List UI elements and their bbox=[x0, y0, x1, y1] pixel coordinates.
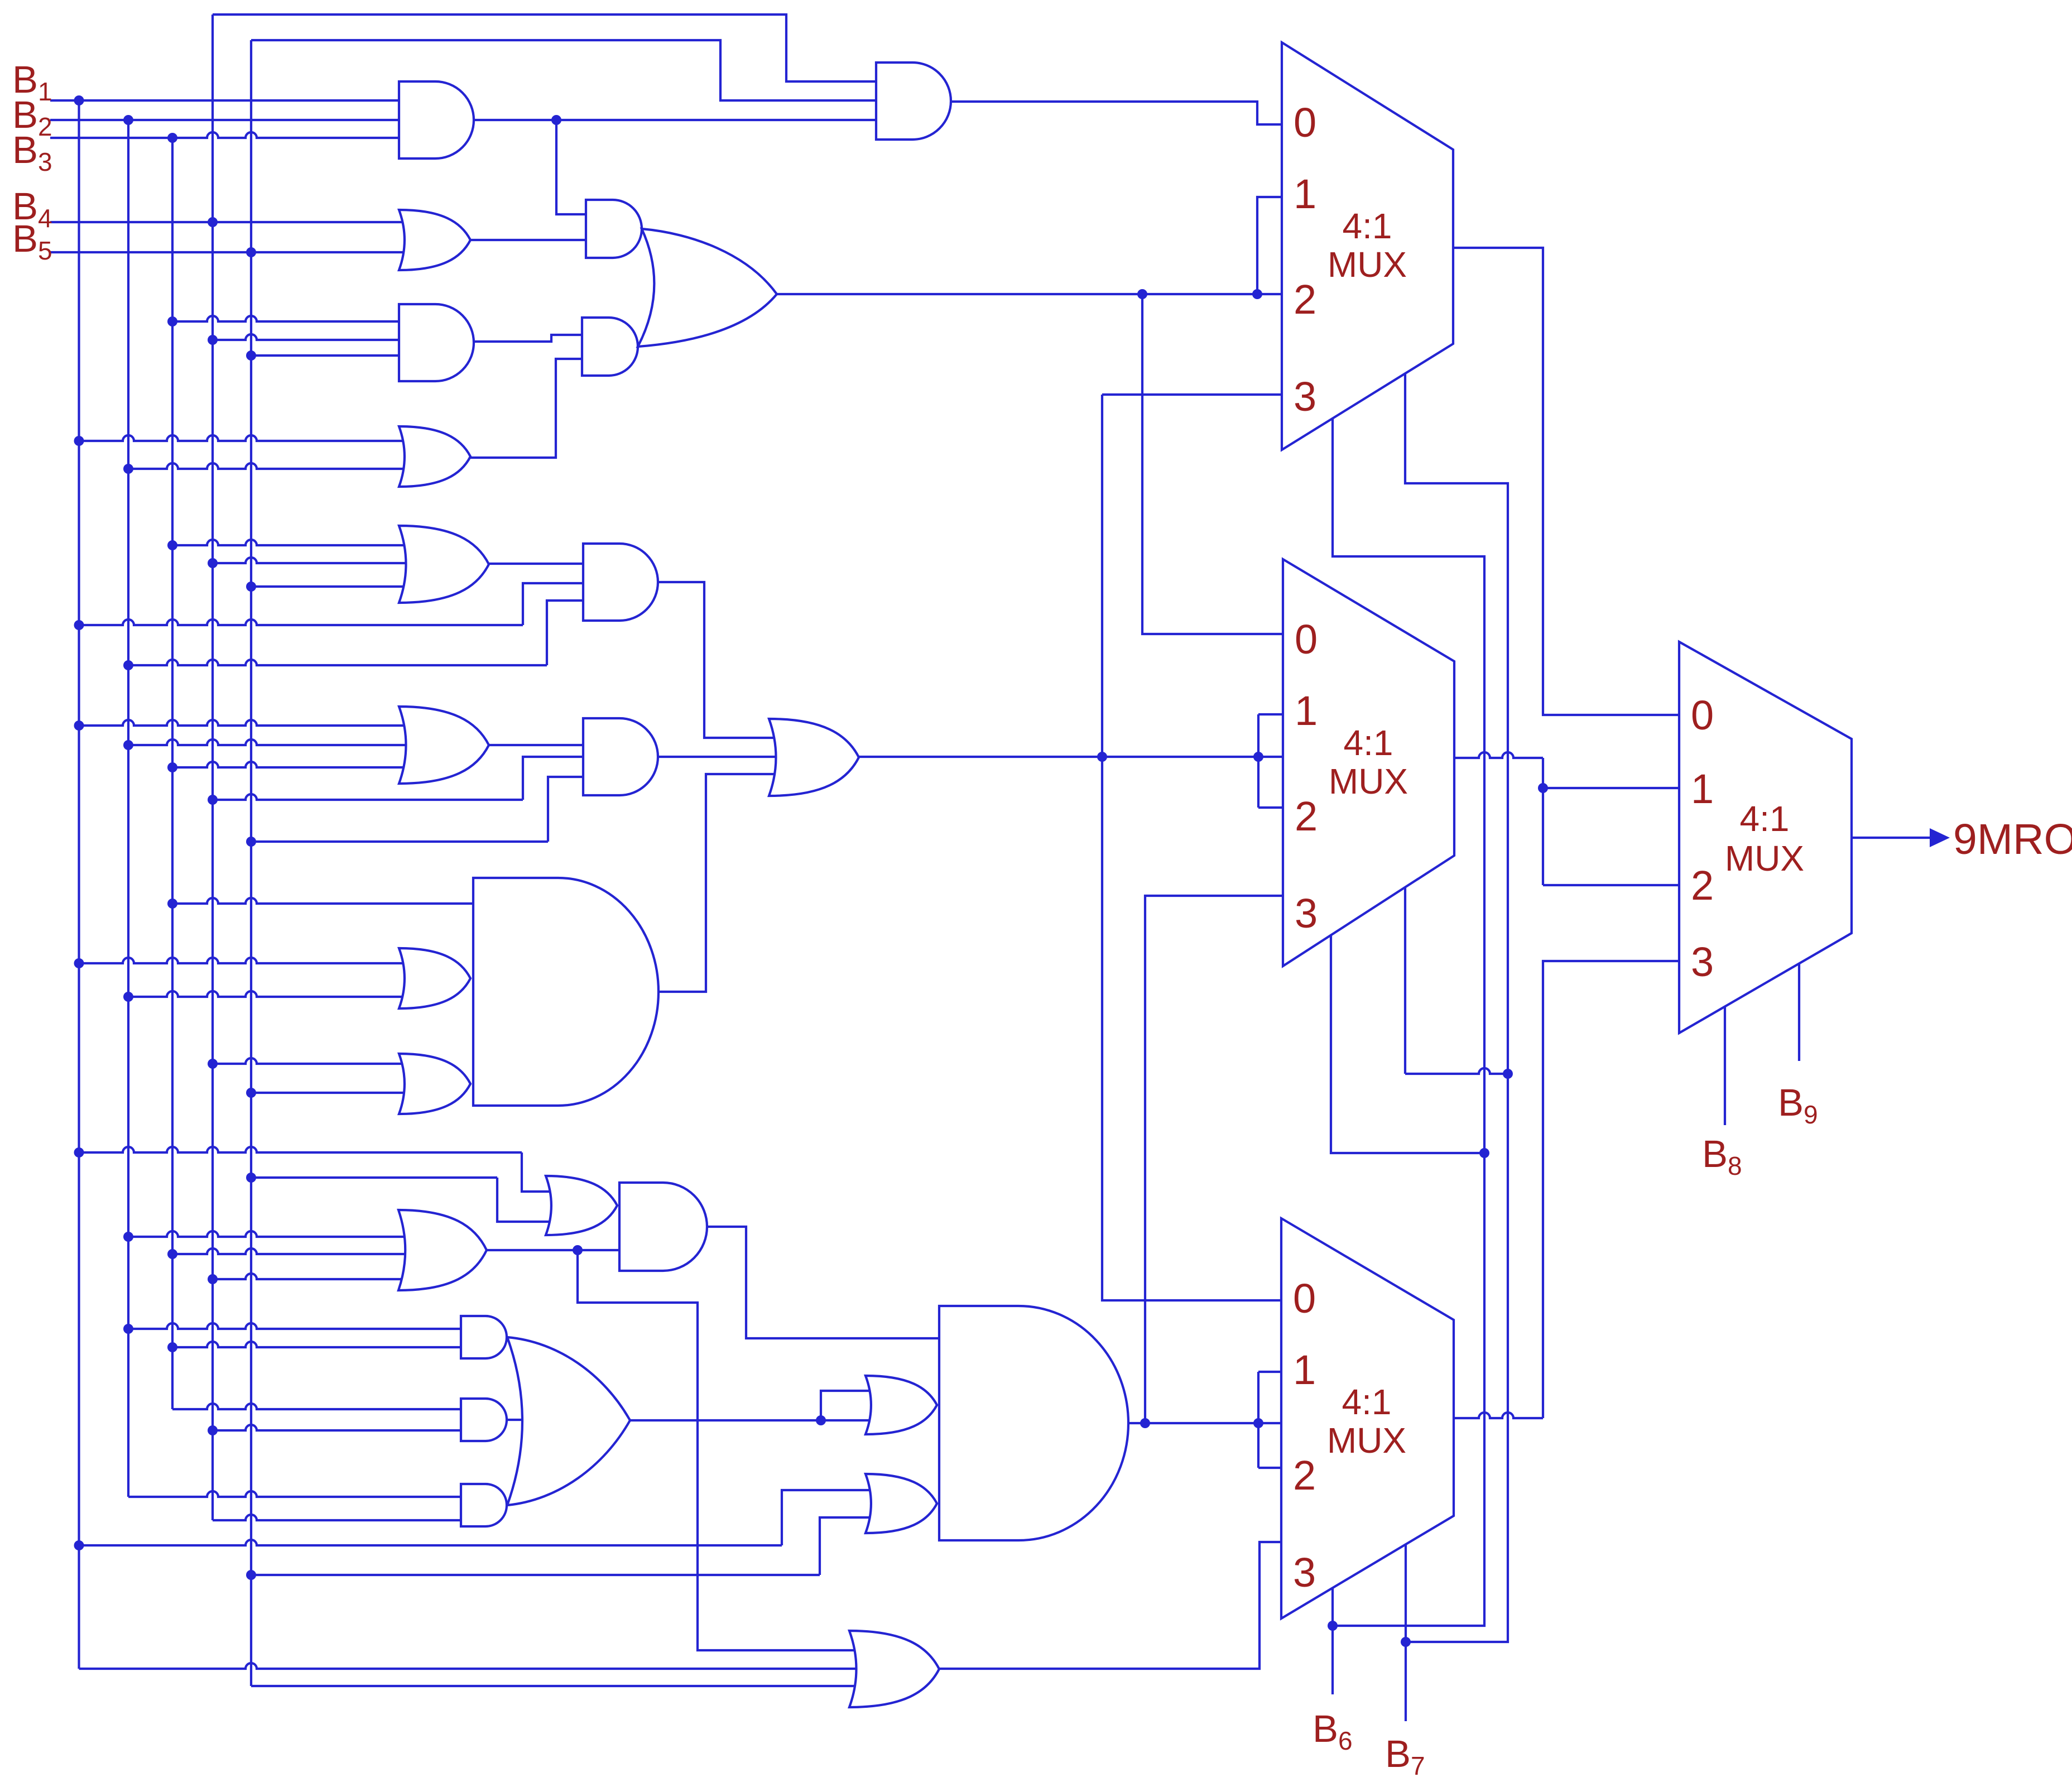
wire OR11 net up to MUX1 input 3 and down to MUX3 input 0 bbox=[1102, 393, 1295, 396]
and-gate A17c mini bbox=[461, 1484, 507, 1526]
wire B4 row to AND2 bbox=[213, 334, 410, 340]
wire B2 row to AND8 bbox=[128, 660, 547, 665]
svg-text:1: 1 bbox=[1295, 688, 1318, 734]
wire bus B2 vertical bbox=[127, 120, 129, 1497]
or-gate O13a (B1 B2) bbox=[399, 948, 470, 1008]
svg-text:1: 1 bbox=[1294, 171, 1316, 217]
junction B5 row OR13b bbox=[246, 1088, 256, 1098]
wire B5 row to AND2 bbox=[251, 354, 410, 357]
wire B5 row to OR7 bbox=[251, 585, 410, 588]
junction B3 row OR16 bbox=[167, 1249, 177, 1259]
svg-text:3: 3 bbox=[1293, 1549, 1316, 1596]
wire OR16 output to AND14 input 2 bbox=[487, 1249, 631, 1251]
wire bus B1 vertical bbox=[78, 100, 80, 1669]
wire AND14 output to AND19 input 1 bbox=[706, 1227, 951, 1338]
junction B1 row AND8 bbox=[74, 620, 84, 630]
wire MUX2 input bracket 1-2 bbox=[1257, 714, 1259, 808]
or-gate O17a bbox=[866, 1376, 937, 1434]
junction B2 row AND17a bbox=[123, 1324, 133, 1334]
junction B5 input tap bbox=[246, 247, 256, 257]
junction B1 row OR2 bbox=[74, 436, 84, 446]
junction B3 row AND17a bbox=[167, 1342, 177, 1352]
wire B2 row to OR13a bbox=[128, 991, 410, 997]
wire input stub B5 to OR1 bbox=[50, 251, 410, 253]
and-gate A8 bbox=[583, 544, 658, 621]
or-gate O15 bbox=[546, 1176, 617, 1235]
junction MUX1 bracket bbox=[1252, 289, 1262, 299]
wire B2 row to AND17a bbox=[128, 1323, 472, 1329]
junction OR5 net to MUX2 branch bbox=[1137, 289, 1147, 299]
wire B5 jog up to OR17b input 2 bbox=[820, 1517, 884, 1575]
svg-text:4:1: 4:1 bbox=[1344, 723, 1393, 763]
junction B2 row OR2 bbox=[123, 464, 133, 474]
output arrowhead bbox=[1930, 828, 1950, 847]
or-gate O11 bbox=[769, 719, 859, 796]
wire B3 row to AND17a bbox=[172, 1342, 472, 1347]
wire AND17b output stub bbox=[507, 1419, 532, 1421]
or-gate O2 (B1 B2) bbox=[399, 426, 470, 487]
junction B3 row AND12 bbox=[167, 899, 177, 909]
junction B4 row AND2 bbox=[208, 335, 218, 345]
junction AND1 output branch bbox=[551, 115, 561, 125]
wire OR9 output to AND10 input 1 bbox=[489, 744, 594, 746]
svg-text:4:1: 4:1 bbox=[1343, 206, 1392, 246]
junction B4 row AND17b bbox=[208, 1425, 218, 1435]
wire bus B3 vertical bbox=[171, 138, 174, 1409]
wire AND1 output to AND3 input 3 bbox=[472, 119, 893, 121]
svg-text:2: 2 bbox=[1295, 793, 1318, 839]
wire input stub B3 to AND1 bbox=[50, 132, 410, 138]
wire B4 row to OR13b bbox=[213, 1058, 410, 1064]
svg-text:0: 0 bbox=[1691, 692, 1714, 738]
junction B1 row OR15 bbox=[74, 1147, 84, 1157]
and-gate A17b mini bbox=[461, 1399, 507, 1441]
wire MUX1 output to MUX4 input 0 bbox=[1453, 248, 1691, 715]
junction MUX4 bracket bbox=[1538, 783, 1548, 793]
wire B2 row to AND17c bbox=[128, 1491, 472, 1497]
wire B3 row to OR9 bbox=[172, 762, 410, 767]
wire B5 row to OR17b bbox=[251, 1574, 820, 1576]
svg-text:3: 3 bbox=[1691, 939, 1714, 985]
wire B1 row to OR9 bbox=[79, 720, 411, 726]
wire B2 jog up to AND8 input 3 bbox=[547, 601, 594, 665]
wire AND19 output to MUX3 bracket bbox=[1127, 1422, 1295, 1424]
junction OR18big net branch bbox=[816, 1415, 826, 1425]
junction B4 row OR13b bbox=[208, 1059, 218, 1069]
wire select B9 stub bbox=[1798, 964, 1800, 1061]
wire B4 row to AND10 bbox=[213, 794, 523, 800]
svg-text:0: 0 bbox=[1293, 1275, 1316, 1322]
wire select B6 chain from MUX1 bbox=[1333, 418, 1484, 1626]
wire MUX2 select B tap bbox=[1405, 1068, 1508, 1074]
wire select B8 stub bbox=[1724, 1007, 1726, 1125]
wire B4 row to AND17b bbox=[213, 1425, 472, 1430]
junction B2 input tap bbox=[123, 115, 133, 125]
junction select B6 node bbox=[1328, 1621, 1338, 1631]
wire OR7 output to AND8 input 1 bbox=[489, 563, 594, 565]
wire B3 row to AND2 bbox=[172, 316, 410, 321]
wire B5 row to OR15 bbox=[251, 1176, 497, 1179]
wire B4 top feed to AND3 input 1 bbox=[213, 15, 893, 81]
wire B1 row to OR15 bbox=[79, 1147, 522, 1152]
wire branch up to OR17a input 1 bbox=[821, 1391, 884, 1420]
wire MUX2 output to MUX4 inputs 1-2 bbox=[1454, 752, 1543, 758]
and-gate A14 bbox=[619, 1183, 707, 1271]
wire input stub B2 bbox=[50, 119, 410, 121]
svg-text:1: 1 bbox=[1293, 1347, 1316, 1393]
junction B5 row AND10 bbox=[246, 837, 256, 847]
junction B1 row OR9 bbox=[74, 721, 84, 731]
svg-text:3: 3 bbox=[1294, 373, 1316, 420]
wire B2 row to OR2 bbox=[128, 463, 410, 469]
junction B5 row AND2 bbox=[246, 350, 256, 361]
junction B2 row OR9 bbox=[123, 740, 133, 750]
wire B2 row to OR9 bbox=[128, 739, 410, 745]
wire AND19 net up to MUX2 input 3 bbox=[1145, 896, 1295, 1423]
junction OR16 net branch bbox=[573, 1245, 583, 1255]
junction OR11 net to MUX3 branch bbox=[1097, 752, 1107, 762]
and-gate A2 (B3 B4 B5) bbox=[399, 304, 474, 381]
wire B1 row to OR13a bbox=[79, 958, 411, 963]
wire B1 jog up to AND8 input 2 bbox=[523, 583, 594, 625]
or-gate O9 (B1 B2 B3) bbox=[399, 707, 489, 784]
and-gate A10 bbox=[583, 718, 658, 795]
junction B5 row OR15 bbox=[246, 1173, 256, 1183]
wire B1 jog down to OR15 input 1 bbox=[522, 1152, 558, 1192]
junction B2 row AND8 bbox=[123, 660, 133, 670]
junction MUX2 bracket bbox=[1253, 752, 1263, 762]
wire AND12 output to OR11 input 3 bbox=[657, 774, 780, 992]
wire select B6 to MUX3 and source stub bbox=[1331, 1588, 1334, 1694]
wire bus B4 vertical bbox=[211, 15, 214, 1520]
junction B3 row OR9 bbox=[167, 762, 177, 772]
junction B4 row OR16 bbox=[208, 1274, 218, 1284]
wire B3 row to AND12 input a bbox=[172, 898, 484, 904]
and-gate A12 big bbox=[473, 878, 658, 1106]
wire select B7 to MUX3 and source stub bbox=[1405, 1544, 1407, 1721]
wire OR5 net down to MUX2 input 0 bbox=[1142, 294, 1295, 634]
and-gate A6 bbox=[582, 318, 638, 376]
wire B5 row to OR13b bbox=[251, 1092, 410, 1094]
svg-text:MUX: MUX bbox=[1327, 1420, 1406, 1461]
svg-text:MUX: MUX bbox=[1328, 244, 1407, 285]
svg-text:1: 1 bbox=[1691, 766, 1714, 812]
junction B1 row OR17b bbox=[74, 1540, 84, 1550]
wire 9MRO output bbox=[1852, 837, 1930, 839]
wire MUX1 input bracket 1-2 bbox=[1257, 197, 1295, 294]
or-gate O5 big bbox=[638, 229, 777, 347]
junction B2 row OR16 bbox=[123, 1232, 133, 1242]
wire B2 row to OR16 bbox=[128, 1231, 410, 1237]
junction B4 input tap bbox=[208, 217, 218, 227]
junction B5 row OR7 bbox=[246, 582, 256, 592]
junction B4 row AND10 bbox=[208, 795, 218, 805]
junction B3 input tap bbox=[167, 133, 177, 143]
and-gate A17a mini bbox=[461, 1316, 507, 1358]
wire select B7 chain from MUX1 bbox=[1405, 373, 1508, 1642]
wire OR5 output to MUX1 input 2 bbox=[776, 293, 1295, 295]
svg-text:0: 0 bbox=[1294, 99, 1316, 146]
junction B4 row OR7 bbox=[208, 558, 218, 568]
wire B1 jog up to OR17b input 1 bbox=[782, 1490, 884, 1545]
junction B5 row OR17b bbox=[246, 1570, 256, 1580]
wire B4 row to AND17c bbox=[213, 1515, 472, 1520]
wire B1 row to OR2 bbox=[79, 435, 411, 441]
svg-text:2: 2 bbox=[1293, 1452, 1316, 1498]
svg-text:3: 3 bbox=[1295, 890, 1318, 936]
junction MUX3 bracket bbox=[1253, 1418, 1263, 1428]
or-gate O1 (B4 B5) bbox=[399, 210, 470, 270]
wire input stub B4 to OR1 bbox=[50, 221, 410, 223]
and-gate A3 top-right bbox=[876, 63, 951, 140]
svg-text:2: 2 bbox=[1294, 276, 1316, 323]
wire B4 jog up to AND10 input 2 bbox=[523, 757, 594, 800]
wire B5 jog down to OR15 input 2 bbox=[497, 1178, 558, 1222]
or-gate O18big bbox=[507, 1337, 630, 1505]
or-gate O16 (B2 B3 B4) bbox=[398, 1210, 487, 1290]
svg-text:4:1: 4:1 bbox=[1740, 799, 1790, 839]
mux U2 4:1 MUX middle bbox=[1283, 559, 1454, 966]
svg-text:2: 2 bbox=[1691, 862, 1714, 909]
wire OR18big output to OR17a bbox=[630, 1419, 884, 1421]
and-gate A19 big bbox=[939, 1306, 1128, 1540]
and-gate A1 (B1 B2 B3) bbox=[399, 81, 474, 158]
wire MUX3 input bracket 1-2 bbox=[1257, 1372, 1259, 1468]
svg-text:9MRO: 9MRO bbox=[1953, 815, 2072, 863]
svg-text:MUX: MUX bbox=[1725, 838, 1804, 878]
mux U3 4:1 MUX bottom bbox=[1281, 1218, 1454, 1618]
or-gate O13b (B4 B5) bbox=[399, 1054, 470, 1114]
wire OR16 net down to OR18 input 1 bbox=[578, 1250, 862, 1650]
wire B3 row to OR7 bbox=[172, 540, 410, 545]
wire AND3 output to MUX1 input 0 bbox=[948, 102, 1295, 124]
wire OR1 output to AND4 bbox=[470, 239, 597, 241]
mux U4 4:1 MUX output bbox=[1679, 642, 1852, 1033]
wire OR11 output to MUX2 bracket bbox=[859, 756, 1295, 758]
or-gate O17b bbox=[866, 1474, 937, 1533]
junction B3 row AND2 bbox=[167, 316, 177, 326]
wire AND8 output to OR11 input 1 bbox=[657, 582, 780, 738]
junction B2 row OR13a bbox=[123, 992, 133, 1002]
wire B5 row to OR18 input 3 bbox=[251, 1685, 862, 1687]
wire B3 row to OR16 bbox=[172, 1248, 410, 1254]
wire B4 row to OR7 bbox=[213, 558, 410, 563]
wire AND10 output to OR11 input 2 bbox=[657, 756, 780, 758]
wire AND2 output to AND6 bbox=[472, 335, 593, 342]
svg-text:0: 0 bbox=[1295, 616, 1318, 662]
junction select B6 chain MUX2 tap bbox=[1479, 1148, 1489, 1158]
wire input stub B1 bbox=[50, 99, 410, 102]
wire B1 row to AND8 bbox=[79, 619, 523, 625]
wire MUX2 select A tap bbox=[1331, 935, 1484, 1153]
svg-text:4:1: 4:1 bbox=[1342, 1382, 1392, 1422]
or-gate O7 (B3 B4 B5) bbox=[399, 526, 489, 603]
wire B5 top feed to AND3 input 2 bbox=[251, 40, 893, 100]
wire OR18 output to MUX3 input 3 bbox=[939, 1542, 1295, 1669]
wire B5 row to AND10 bbox=[251, 840, 548, 843]
wire B5 jog up to AND10 input 3 bbox=[548, 777, 594, 842]
junction select B7 chain MUX2 tap bbox=[1503, 1069, 1513, 1079]
wire OR2 output up to AND6 bbox=[470, 359, 593, 458]
and-gate A4 bbox=[586, 200, 642, 258]
wire B1 row to OR18 input 2 bbox=[79, 1663, 863, 1669]
wire bus B5 vertical bbox=[250, 40, 252, 1686]
svg-text:MUX: MUX bbox=[1329, 761, 1408, 801]
wire MUX3 output to MUX4 input 3 bbox=[1454, 1413, 1543, 1418]
junction select B7 node bbox=[1401, 1637, 1411, 1647]
wire B4 row to OR16 bbox=[213, 1274, 410, 1279]
wire B1 row to OR17b bbox=[79, 1540, 782, 1545]
junction B3 row OR7 bbox=[167, 540, 177, 550]
or-gate O18 (B1 B5) bbox=[849, 1631, 939, 1707]
mux U1 4:1 MUX top bbox=[1282, 42, 1453, 450]
junction B1 input tap bbox=[74, 95, 84, 105]
wire B3 row to AND17b bbox=[172, 1404, 472, 1409]
junction AND19 net to MUX2 branch bbox=[1140, 1418, 1150, 1428]
wire AND1 output branch to AND4 bbox=[556, 120, 597, 214]
junction B1 row OR13a bbox=[74, 958, 84, 968]
